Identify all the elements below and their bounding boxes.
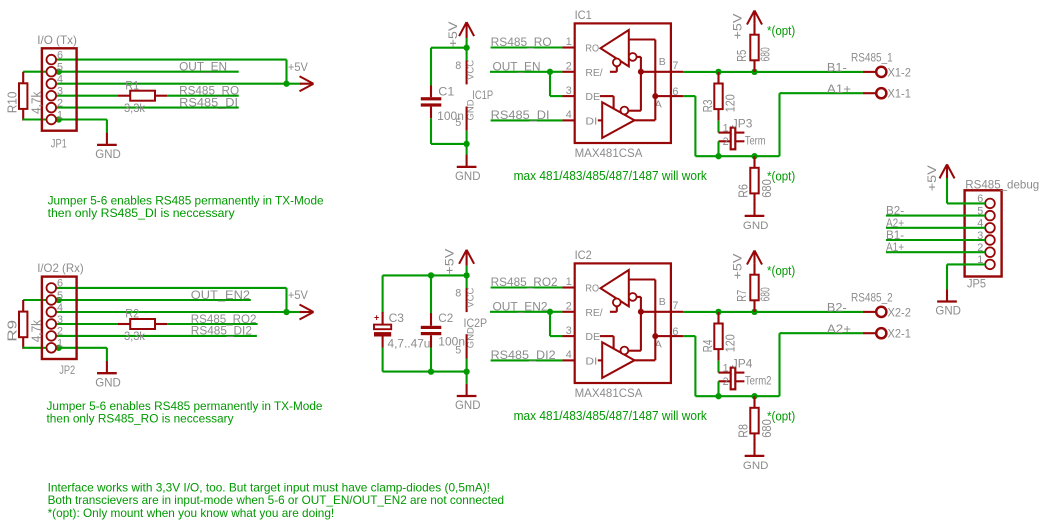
svg-text:1: 1 <box>57 109 63 121</box>
svg-text:4: 4 <box>566 349 572 361</box>
svg-text:max 481/483/485/487/1487 will: max 481/483/485/487/1487 will work <box>514 169 708 183</box>
svg-text:*(opt): *(opt) <box>767 23 795 38</box>
svg-text:R1: R1 <box>125 78 139 92</box>
svg-text:GND: GND <box>95 147 121 161</box>
svg-text:B2-: B2- <box>827 300 847 314</box>
svg-text:1: 1 <box>566 36 572 48</box>
svg-text:JP1: JP1 <box>51 137 67 151</box>
svg-text:RS485_DI: RS485_DI <box>179 95 238 109</box>
svg-text:4,7..47u: 4,7..47u <box>388 336 431 350</box>
svg-text:B: B <box>659 56 666 68</box>
svg-text:+: + <box>374 313 379 323</box>
svg-text:A2+: A2+ <box>827 322 851 336</box>
svg-text:RE/: RE/ <box>585 308 603 319</box>
svg-text:GND: GND <box>455 398 481 412</box>
svg-text:DI: DI <box>585 356 597 367</box>
svg-text:RS485_DI2: RS485_DI2 <box>191 324 252 338</box>
svg-text:RO: RO <box>585 284 599 295</box>
svg-text:4: 4 <box>566 109 572 121</box>
svg-text:7: 7 <box>672 300 678 312</box>
svg-text:4: 4 <box>57 74 63 86</box>
svg-text:MAX481CSA: MAX481CSA <box>575 386 644 400</box>
svg-text:GND: GND <box>935 304 961 318</box>
svg-text:JP5: JP5 <box>967 276 986 290</box>
svg-text:4: 4 <box>57 302 63 314</box>
svg-text:4,7k: 4,7k <box>30 319 44 342</box>
svg-text:JP3: JP3 <box>732 117 753 131</box>
svg-text:R2: R2 <box>125 307 139 321</box>
svg-text:R10: R10 <box>6 92 20 114</box>
svg-text:6: 6 <box>57 278 63 290</box>
svg-text:1: 1 <box>723 363 729 375</box>
svg-text:8: 8 <box>455 60 461 72</box>
svg-text:GND: GND <box>95 375 121 389</box>
svg-text:*(opt): *(opt) <box>767 168 795 183</box>
svg-text:DE: DE <box>585 92 600 103</box>
svg-text:OUT_EN2: OUT_EN2 <box>493 299 548 313</box>
svg-text:X2-1: X2-1 <box>888 327 912 341</box>
svg-text:IC2: IC2 <box>575 248 592 262</box>
svg-text:OUT_EN: OUT_EN <box>493 59 541 73</box>
svg-text:DI: DI <box>585 116 597 127</box>
svg-text:2: 2 <box>566 61 572 73</box>
svg-text:120: 120 <box>723 334 737 352</box>
svg-text:JP4: JP4 <box>732 357 753 371</box>
svg-text:6: 6 <box>672 86 678 98</box>
svg-text:R8: R8 <box>737 424 751 438</box>
svg-text:1: 1 <box>566 276 572 288</box>
svg-text:OUT_EN: OUT_EN <box>179 60 227 74</box>
svg-text:then only RS485_RO is neccessa: then only RS485_RO is neccessary <box>47 412 235 426</box>
svg-text:RO: RO <box>585 44 599 55</box>
svg-text:DE: DE <box>585 332 600 343</box>
svg-text:A1+: A1+ <box>827 82 851 96</box>
svg-text:+5V: +5V <box>446 22 460 48</box>
svg-text:680: 680 <box>758 47 772 61</box>
svg-text:3,3k: 3,3k <box>124 101 145 115</box>
svg-text:I/O2 (Rx): I/O2 (Rx) <box>37 261 84 275</box>
svg-text:C3: C3 <box>389 311 405 325</box>
svg-text:+5V: +5V <box>442 249 456 275</box>
svg-text:6: 6 <box>672 326 678 338</box>
svg-text:+5V: +5V <box>288 60 308 74</box>
svg-text:7: 7 <box>672 60 678 72</box>
svg-text:3: 3 <box>57 86 63 98</box>
svg-text:R9: R9 <box>6 320 20 342</box>
svg-text:4,7k: 4,7k <box>30 91 44 114</box>
svg-text:RS485_DI: RS485_DI <box>491 108 550 122</box>
svg-text:OUT_EN2: OUT_EN2 <box>191 288 250 302</box>
svg-text:5: 5 <box>455 344 461 356</box>
svg-text:RS485_RO2: RS485_RO2 <box>491 275 558 289</box>
svg-text:2: 2 <box>566 301 572 313</box>
svg-text:RE/: RE/ <box>585 68 603 79</box>
svg-text:6: 6 <box>57 49 63 61</box>
svg-text:VCC: VCC <box>465 288 476 308</box>
svg-text:680: 680 <box>758 287 772 301</box>
svg-text:B1-: B1- <box>827 60 847 74</box>
svg-text:RS485_DI2: RS485_DI2 <box>491 348 556 362</box>
svg-text:Jumper 5-6 enables RS485 perma: Jumper 5-6 enables RS485 permanently in … <box>47 399 323 413</box>
svg-text:R7: R7 <box>735 290 749 302</box>
svg-text:RS485_debug: RS485_debug <box>965 177 1039 191</box>
svg-text:VCC: VCC <box>465 60 476 80</box>
svg-text:2: 2 <box>57 97 63 109</box>
svg-text:MAX481CSA: MAX481CSA <box>575 146 644 160</box>
svg-text:5: 5 <box>455 117 461 129</box>
svg-text:120: 120 <box>723 94 737 112</box>
svg-text:3,3k: 3,3k <box>124 329 145 343</box>
svg-text:Jumper 5-6 enables RS485 perma: Jumper 5-6 enables RS485 permanently in … <box>48 193 324 207</box>
svg-text:A1+: A1+ <box>886 240 904 254</box>
svg-text:3: 3 <box>566 325 572 337</box>
svg-text:R6: R6 <box>737 184 751 198</box>
svg-text:3: 3 <box>566 85 572 97</box>
svg-text:Term2: Term2 <box>745 373 772 387</box>
svg-text:*(opt): *(opt) <box>767 263 795 278</box>
svg-text:GND: GND <box>743 220 769 232</box>
svg-text:+5V: +5V <box>730 14 744 40</box>
svg-text:2: 2 <box>723 376 729 388</box>
svg-text:B: B <box>659 296 666 308</box>
svg-text:2: 2 <box>57 326 63 338</box>
svg-text:then only RS485_DI is neccessa: then only RS485_DI is neccessary <box>48 206 236 220</box>
svg-text:1: 1 <box>57 338 63 350</box>
svg-text:*(opt): *(opt) <box>767 408 795 423</box>
svg-text:*(opt): Only mount when you kn: *(opt): Only mount when you know what yo… <box>48 506 335 520</box>
svg-text:R4: R4 <box>701 340 715 353</box>
svg-text:5: 5 <box>57 62 63 74</box>
svg-text:+5V: +5V <box>730 254 744 280</box>
svg-text:C1: C1 <box>438 84 454 98</box>
svg-text:GND: GND <box>455 169 481 183</box>
svg-text:3: 3 <box>57 314 63 326</box>
svg-text:RS485_2: RS485_2 <box>851 290 893 304</box>
svg-text:X1-1: X1-1 <box>888 87 912 101</box>
svg-text:X2-2: X2-2 <box>888 305 912 319</box>
svg-text:GND: GND <box>743 460 769 472</box>
svg-text:Term: Term <box>745 133 766 147</box>
svg-text:RS485_RO: RS485_RO <box>491 35 552 49</box>
svg-text:RS485_1: RS485_1 <box>851 50 893 64</box>
svg-text:JP2: JP2 <box>59 363 75 377</box>
svg-text:C2: C2 <box>438 311 453 325</box>
svg-text:1: 1 <box>723 123 729 135</box>
svg-text:R5: R5 <box>735 50 749 62</box>
svg-text:I/O (Tx): I/O (Tx) <box>37 33 77 47</box>
svg-text:IC1: IC1 <box>575 8 592 22</box>
svg-text:5: 5 <box>57 290 63 302</box>
svg-text:+5V: +5V <box>925 165 939 191</box>
svg-text:8: 8 <box>455 288 461 300</box>
svg-text:X1-2: X1-2 <box>888 65 912 79</box>
svg-text:+5V: +5V <box>288 288 308 302</box>
svg-text:R3: R3 <box>701 100 715 113</box>
svg-text:2: 2 <box>723 136 729 148</box>
svg-text:max 481/483/485/487/1487 will: max 481/483/485/487/1487 will work <box>514 409 708 423</box>
